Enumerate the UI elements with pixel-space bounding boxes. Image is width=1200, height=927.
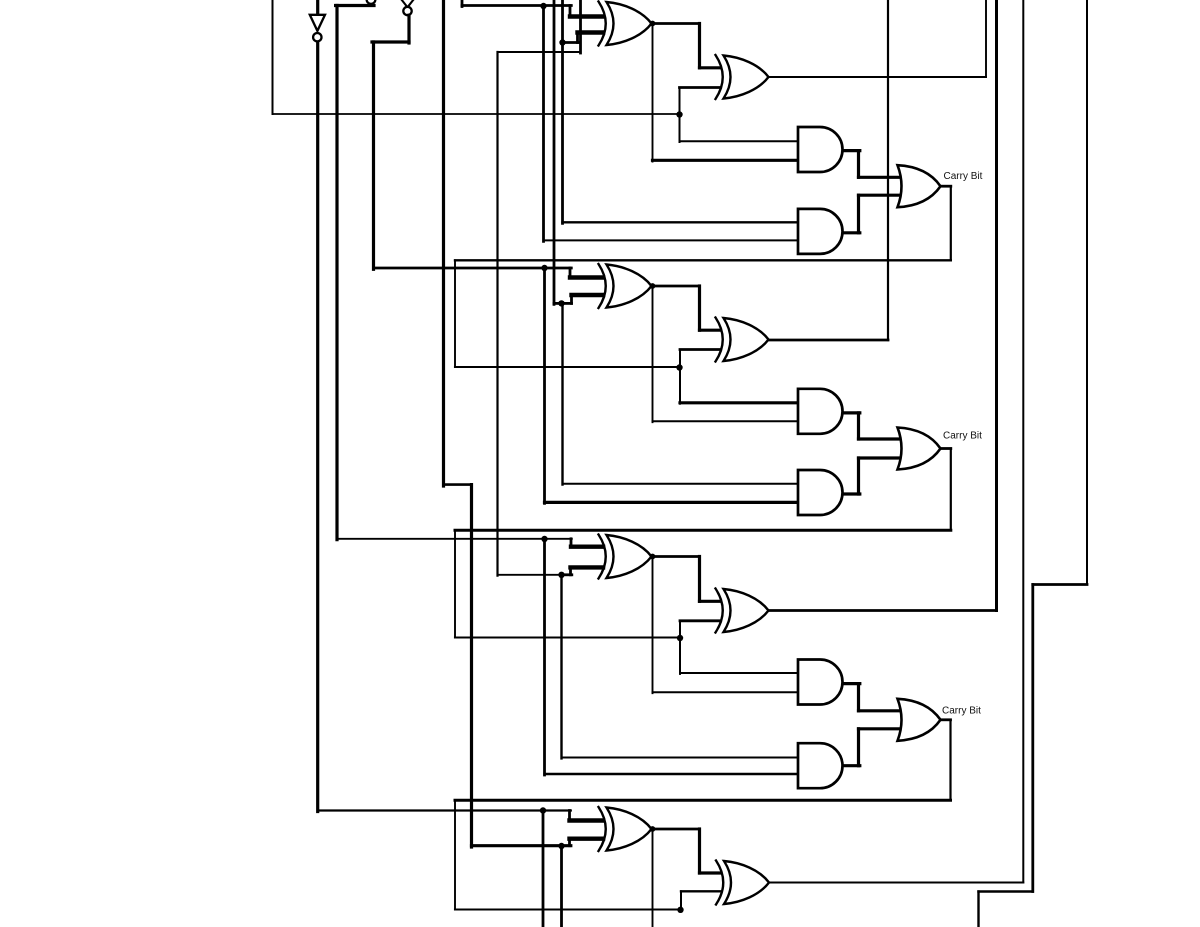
- svg-text:Carry Bit: Carry Bit: [943, 431, 982, 442]
- svg-text:Carry Bit: Carry Bit: [944, 171, 983, 182]
- svg-text:Carry Bit: Carry Bit: [942, 706, 981, 717]
